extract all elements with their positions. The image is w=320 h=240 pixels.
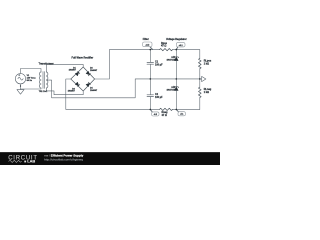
bridge rectifier diamond xyxy=(71,67,95,91)
wire load column bottom xyxy=(199,98,201,110)
svg-text:Voltage Regulator: Voltage Regulator xyxy=(166,38,187,41)
svg-text:1N4007: 1N4007 xyxy=(68,90,76,93)
svg-text:Filter: Filter xyxy=(143,38,149,41)
diode D3 (lower-left) xyxy=(75,82,79,86)
svg-text:Transformer: Transformer xyxy=(39,62,54,66)
wire bottom rail right xyxy=(172,108,199,110)
svg-text:1N4742A: 1N4742A xyxy=(167,58,176,61)
wire secondary center tap to mid rail xyxy=(46,79,200,98)
resistor Rpos 47ohm xyxy=(160,48,173,50)
text labels xyxy=(27,38,212,117)
svg-text:1N4007: 1N4007 xyxy=(69,69,77,72)
wire secondary bottom tap to bridge bottom xyxy=(46,88,83,95)
svg-text:TR1 10:1: TR1 10:1 xyxy=(39,91,48,93)
diode D1 (upper-left) xyxy=(75,71,79,75)
junction dots xyxy=(20,49,201,110)
svg-text:120 Vrms: 120 Vrms xyxy=(27,77,37,80)
output terminal arrow xyxy=(200,76,206,81)
wire bridge DC+ to top rail xyxy=(95,50,160,79)
resistor RL2 1kohm xyxy=(199,87,202,97)
node flag -5.1 xyxy=(176,110,185,116)
wire source top to transformer primary top xyxy=(21,69,42,74)
svg-text:60 Hz: 60 Hz xyxy=(27,80,32,82)
svg-text:1N4007: 1N4007 xyxy=(90,89,98,92)
footer logo CIRCUIT LAB xyxy=(8,155,38,163)
node flag -8.2 xyxy=(151,110,160,116)
diode D2 (upper-right) xyxy=(86,71,90,75)
svg-text:LAB: LAB xyxy=(27,159,35,164)
node flag +8.2 xyxy=(143,42,153,49)
footer title text xyxy=(44,153,84,161)
voltage source V1 xyxy=(15,74,25,84)
wire source bottom stem xyxy=(20,84,22,90)
svg-text:1N4733A: 1N4733A xyxy=(167,88,176,91)
capacitor C1 100uF xyxy=(147,50,154,79)
capacitor C2 100uF xyxy=(147,79,154,110)
svg-text:100 μF: 100 μF xyxy=(155,63,163,66)
svg-text:http://circuitlab.com/c/hgtnwq: http://circuitlab.com/c/hgtnwq xyxy=(44,158,83,162)
transformer T1 xyxy=(39,72,48,89)
resistor Rneg 47ohm xyxy=(160,108,173,110)
zener diode DZ2 1N4733A xyxy=(174,79,179,110)
zener diode DZ1 1N4742A xyxy=(174,50,179,79)
svg-text:47 Ω: 47 Ω xyxy=(162,114,167,117)
node flag +5.1 xyxy=(176,43,185,50)
wire load column middle xyxy=(199,69,201,88)
resistor RL1 1kohm xyxy=(199,58,202,68)
footer bar xyxy=(0,152,220,165)
wire primary bottom return xyxy=(21,88,42,89)
ground xyxy=(17,90,24,95)
svg-text:1 kΩ: 1 kΩ xyxy=(204,62,209,65)
wire secondary top tap to bridge top xyxy=(46,64,83,72)
svg-text:Full Wave Rectifier: Full Wave Rectifier xyxy=(72,56,94,59)
wire top rail right xyxy=(172,50,199,59)
svg-text:1 kΩ: 1 kΩ xyxy=(204,91,209,94)
svg-text:47 Ω: 47 Ω xyxy=(161,44,166,47)
svg-text:1N4007: 1N4007 xyxy=(90,69,98,72)
diode D4 (lower-right) xyxy=(86,82,90,86)
svg-text:100 μF: 100 μF xyxy=(155,96,163,99)
wire bridge DC- to bottom rail xyxy=(66,79,160,109)
